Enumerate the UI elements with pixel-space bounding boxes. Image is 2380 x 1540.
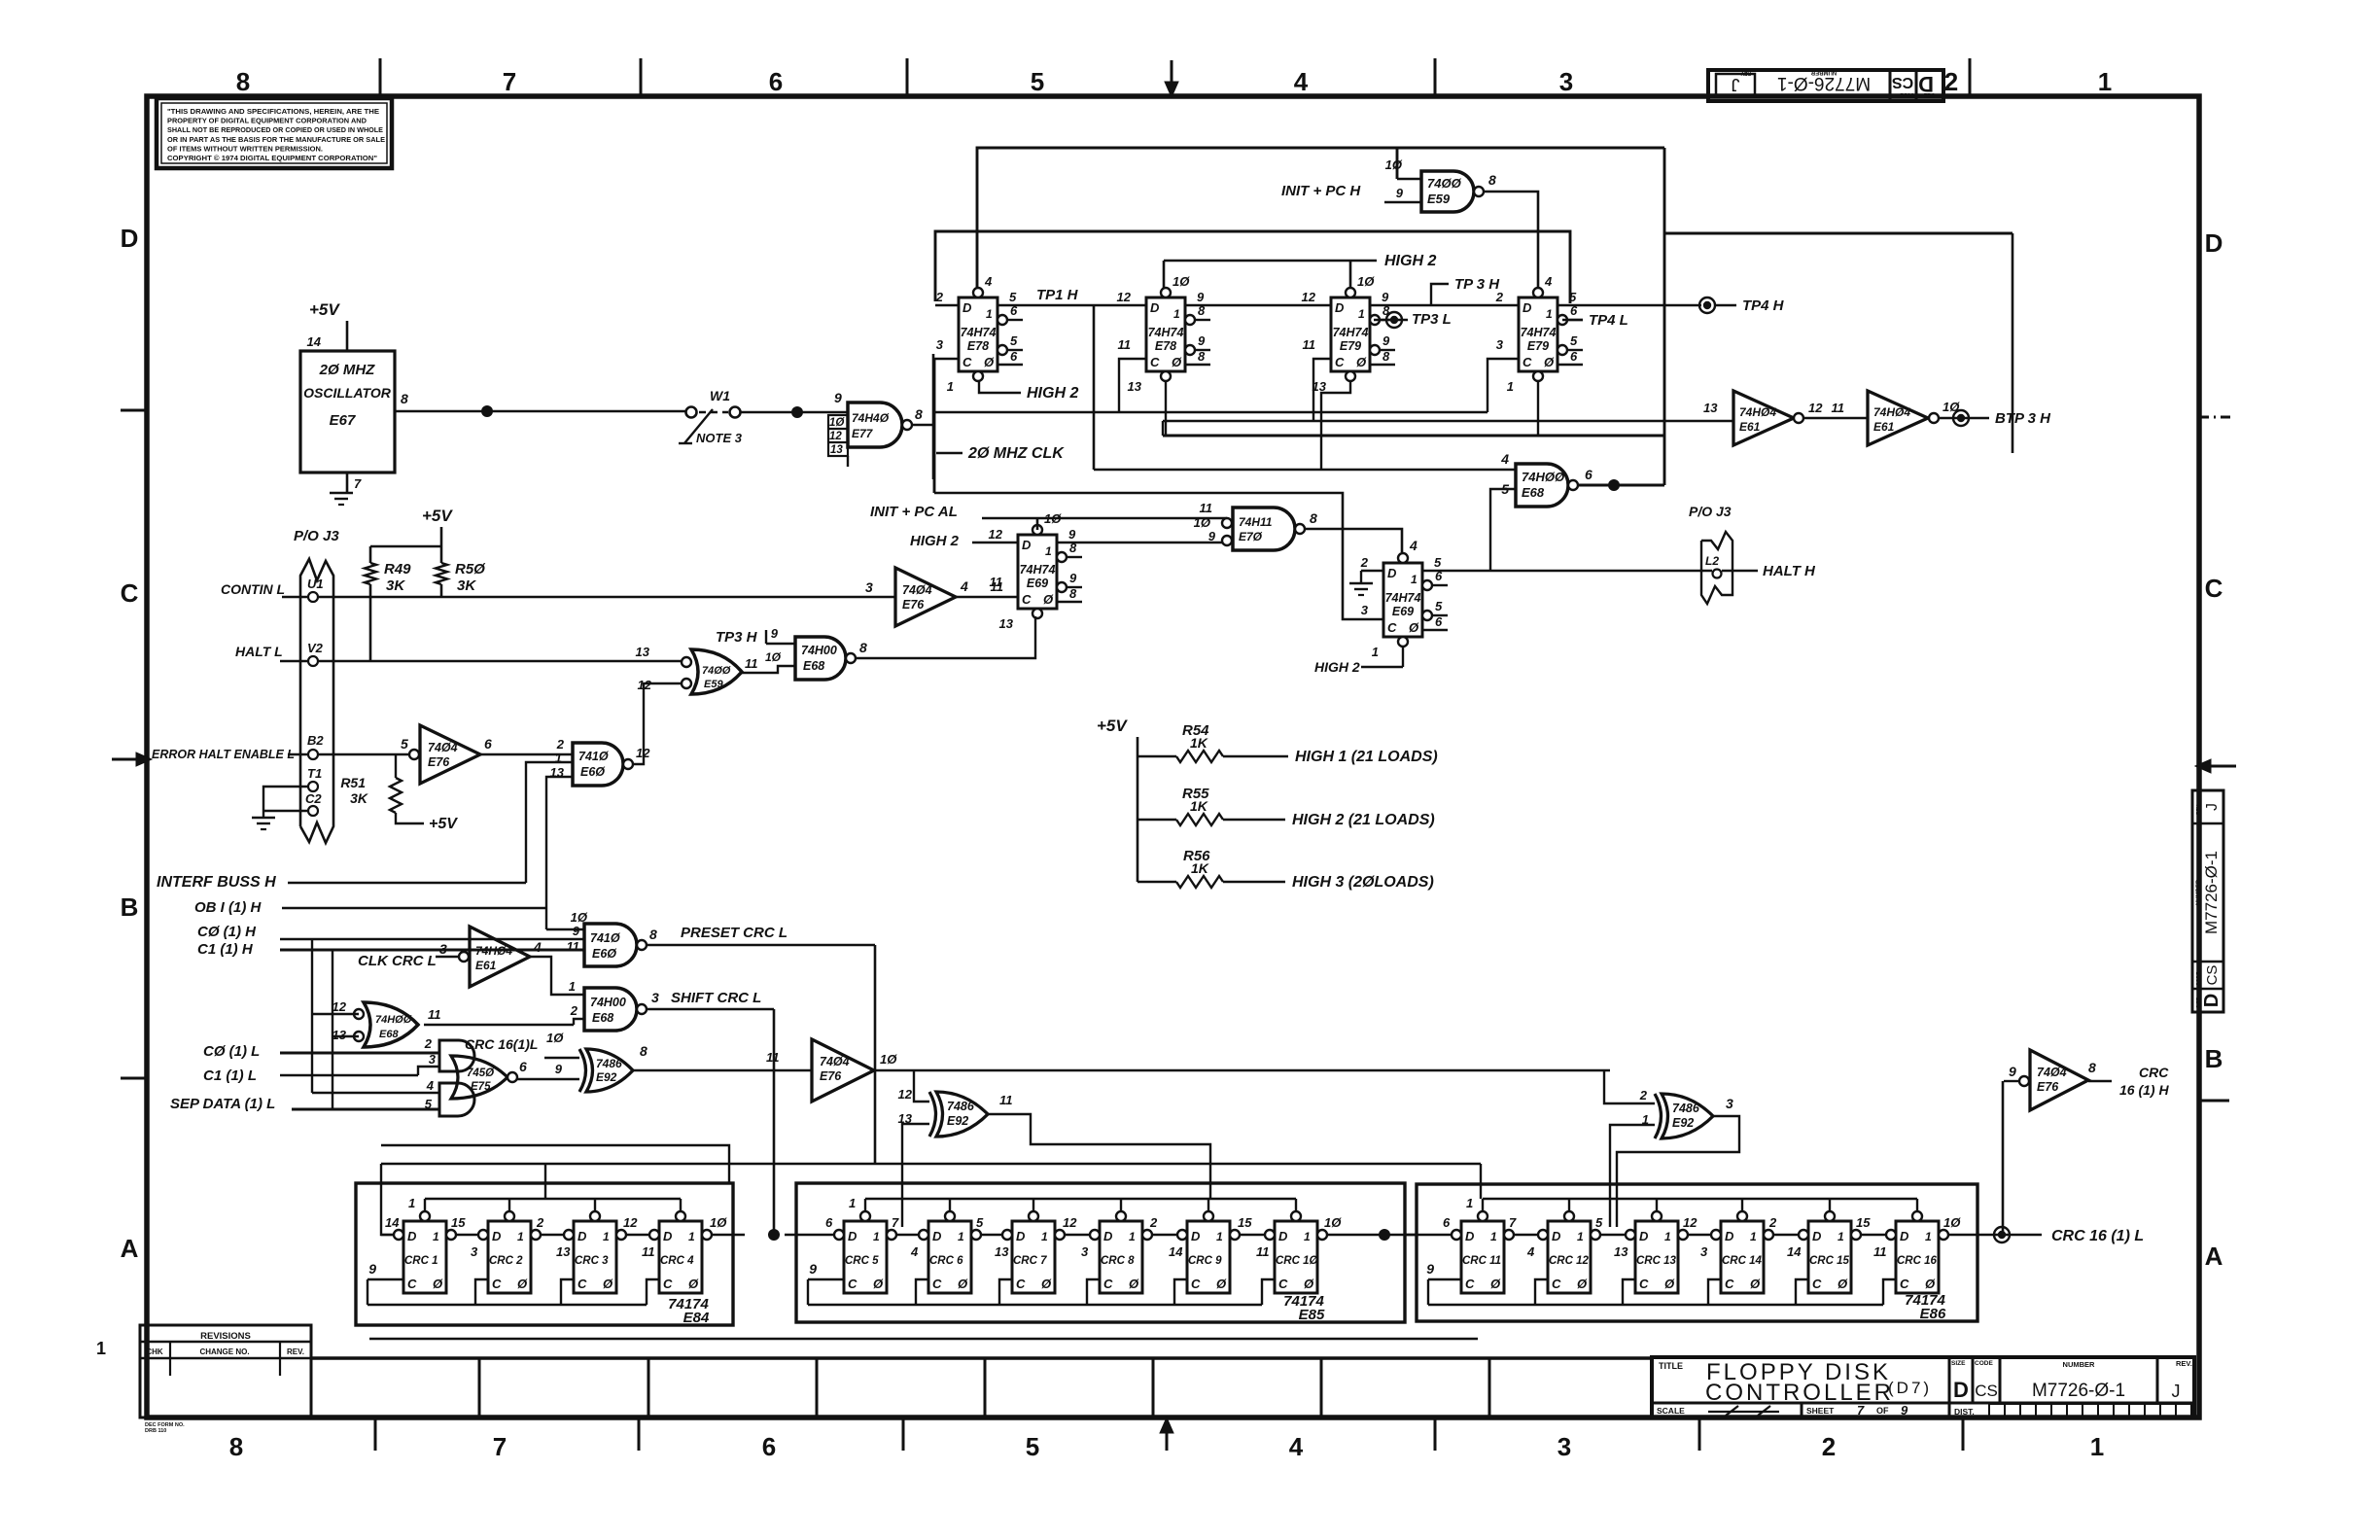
preset rail E85: [865, 1198, 1296, 1200]
high-2 label lower (FF1 clear): [979, 380, 1021, 393]
svg-text:13: 13: [999, 616, 1014, 631]
svg-text:7: 7: [1509, 1215, 1517, 1230]
svg-text:E77: E77: [852, 427, 874, 440]
svg-text:3K: 3K: [386, 577, 405, 594]
svg-text:CØ (1) L: CØ (1) L: [203, 1043, 260, 1060]
svg-text:1Ø: 1Ø: [829, 417, 845, 429]
left fold arrow: [112, 758, 142, 761]
svg-text:C: C: [2205, 574, 2223, 603]
svg-text:12: 12: [829, 431, 842, 442]
svg-text:SHALL NOT BE REPRODUCED OR COP: SHALL NOT BE REPRODUCED OR COPIED OR USE…: [167, 125, 383, 134]
FF4 clear wire: [1537, 380, 1539, 436]
svg-text:12: 12: [1063, 1215, 1077, 1230]
svg-text:2Ø MHZ CLK: 2Ø MHZ CLK: [967, 445, 1065, 462]
svg-text:3K: 3K: [350, 790, 368, 806]
svg-text:1: 1: [1216, 1230, 1223, 1243]
svg-text:C: C: [1335, 355, 1345, 369]
svg-text:HIGH 2: HIGH 2: [1027, 385, 1078, 402]
svg-text:6: 6: [769, 67, 783, 96]
svg-text:3: 3: [439, 941, 447, 957]
svg-text:J: J: [2172, 1382, 2181, 1401]
flip-flop CRC 5: [844, 1221, 887, 1293]
svg-text:E76: E76: [820, 1069, 842, 1083]
wire top right y240: [1664, 232, 2012, 235]
svg-text:2Ø MHZ: 2Ø MHZ: [319, 362, 376, 378]
svg-text:13: 13: [556, 1244, 571, 1259]
svg-text:E75: E75: [471, 1081, 491, 1093]
svg-text:T1: T1: [307, 766, 322, 781]
svg-text:6: 6: [1585, 467, 1592, 482]
svg-text:12: 12: [1808, 401, 1823, 415]
svg-text:P/O J3: P/O J3: [294, 528, 339, 544]
svg-text:A: A: [121, 1234, 139, 1263]
svg-text:CRC 11: CRC 11: [1462, 1255, 1501, 1267]
svg-text:E7Ø: E7Ø: [1239, 530, 1263, 543]
svg-text:1: 1: [1664, 1230, 1671, 1243]
svg-text:R49: R49: [384, 561, 411, 577]
clock drop to E69b: [933, 359, 936, 493]
svg-text:3: 3: [1557, 1432, 1571, 1461]
wire SHIFT CRC L: [647, 1008, 774, 1011]
svg-text:1: 1: [569, 979, 576, 994]
FF2 clear wire: [1165, 380, 1167, 436]
svg-text:74HØ4: 74HØ4: [1739, 405, 1776, 419]
svg-text:E59: E59: [704, 679, 723, 690]
svg-text:4: 4: [426, 1078, 435, 1093]
svg-text:SIZE: SIZE: [1951, 1360, 1966, 1367]
svg-text:M7726-Ø-1: M7726-Ø-1: [2202, 851, 2221, 934]
svg-text:E6Ø: E6Ø: [592, 947, 617, 961]
wire E68 pin5 from halt wire: [1490, 489, 1516, 571]
svg-text:13: 13: [636, 645, 650, 659]
svg-text:+5V: +5V: [309, 300, 340, 319]
wire E77 output to clock node: [912, 424, 933, 427]
wire E59 output to FF4 preset: [1484, 192, 1538, 288]
svg-text:1: 1: [433, 1230, 439, 1243]
svg-text:15: 15: [451, 1215, 466, 1230]
copyright notice block: [157, 98, 392, 168]
svg-text:HIGH 2 (21 LOADS): HIGH 2 (21 LOADS): [1292, 812, 1435, 828]
svg-text:1: 1: [517, 1230, 524, 1243]
svg-text:1K: 1K: [1190, 735, 1208, 751]
svg-text:C: C: [1639, 1277, 1649, 1291]
svg-text:9: 9: [1426, 1261, 1434, 1277]
sideways number strip on right border: [2192, 790, 2223, 1012]
top zone ticks: [379, 58, 382, 96]
svg-text:745Ø: 745Ø: [467, 1067, 495, 1079]
svg-text:E67: E67: [330, 412, 356, 429]
svg-text:REV.: REV.: [2176, 1359, 2192, 1368]
wire E76a out to E69a clock: [956, 596, 1018, 599]
svg-text:7: 7: [493, 1432, 507, 1461]
scale box: [1801, 1403, 1803, 1417]
svg-text:11: 11: [990, 575, 1003, 589]
svg-text:11: 11: [745, 656, 758, 671]
svg-text:CRC: CRC: [2139, 1065, 2169, 1080]
svg-text:Ø: Ø: [1925, 1277, 1936, 1291]
svg-text:OF ITEMS WITHOUT WRITTEN PERMI: OF ITEMS WITHOUT WRITTEN PERMISSION.: [167, 144, 323, 153]
upper wire above registers: [381, 1145, 729, 1183]
svg-text:CS: CS: [1892, 74, 1914, 90]
lower register tie line: [369, 1338, 1478, 1340]
svg-text:Ø: Ø: [984, 355, 995, 369]
svg-text:74H00: 74H00: [590, 996, 626, 1009]
bottom zone ticks: [374, 1417, 377, 1451]
svg-text:74H74: 74H74: [1333, 326, 1369, 339]
flip-flop E78a 74H74: [959, 297, 997, 371]
svg-text:6: 6: [1010, 349, 1018, 364]
svg-text:74ØØ: 74ØØ: [702, 665, 731, 677]
svg-text:HIGH 2: HIGH 2: [1314, 659, 1360, 675]
svg-text:7: 7: [1857, 1403, 1865, 1417]
svg-text:1: 1: [688, 1230, 695, 1243]
svg-text:C: C: [492, 1277, 502, 1291]
top center fold arrow: [1171, 60, 1173, 87]
svg-text:1Ø: 1Ø: [546, 1031, 564, 1045]
svg-text:9: 9: [1198, 333, 1206, 348]
preset rail line above registers: [381, 1163, 1481, 1166]
svg-text:3: 3: [651, 990, 659, 1005]
svg-text:B: B: [2205, 1044, 2223, 1073]
flip-flop E79a 74H74: [1331, 297, 1370, 371]
oscillator ground pin 7: [346, 472, 349, 493]
wire E68 output right: [1578, 484, 1664, 487]
svg-text:5: 5: [1570, 333, 1578, 348]
flip-flop E78b 74H74: [1146, 297, 1185, 371]
clock vertical node x960: [932, 354, 935, 479]
reversed title strip (upside-down): [1708, 70, 1943, 101]
svg-text:CODE: CODE: [1900, 91, 1914, 97]
svg-text:REV: REV: [2196, 804, 2202, 815]
svg-text:5: 5: [976, 1215, 984, 1230]
svg-text:74HØØ: 74HØØ: [1522, 470, 1565, 484]
svg-text:74HØØ: 74HØØ: [375, 1014, 412, 1026]
svg-text:13: 13: [332, 1028, 347, 1042]
svg-text:9: 9: [1382, 290, 1389, 304]
svg-text:741Ø: 741Ø: [590, 931, 621, 945]
svg-text:Ø: Ø: [1041, 1277, 1052, 1291]
svg-text:E76: E76: [428, 755, 450, 769]
svg-text:15: 15: [1238, 1215, 1252, 1230]
svg-text:CRC 1: CRC 1: [404, 1255, 438, 1267]
svg-text:NUMBER: NUMBER: [2196, 879, 2202, 905]
svg-text:CHK: CHK: [146, 1347, 163, 1356]
svg-text:2: 2: [1822, 1432, 1836, 1461]
svg-text:E92: E92: [947, 1114, 968, 1128]
shift crc vertical: [773, 1009, 776, 1232]
svg-text:CODE: CODE: [2196, 971, 2202, 986]
svg-text:R51: R51: [340, 775, 366, 790]
svg-text:Ø: Ø: [1577, 1277, 1588, 1291]
wire E76b out to E60: [480, 753, 573, 756]
flip-flop CRC 1&#216;: [1275, 1221, 1317, 1293]
and gate E70 74H11: [1057, 542, 1227, 544]
svg-text:C: C: [1022, 592, 1032, 607]
svg-text:11: 11: [428, 1007, 441, 1022]
svg-text:DIST.: DIST.: [1954, 1407, 1975, 1417]
svg-text:L2: L2: [1705, 554, 1719, 568]
svg-text:E69: E69: [1027, 577, 1048, 590]
svg-text:2: 2: [1149, 1215, 1158, 1230]
svg-text:7486: 7486: [947, 1100, 975, 1113]
svg-text:E78: E78: [967, 339, 989, 353]
svg-text:D: D: [1191, 1229, 1201, 1243]
svg-text:8: 8: [1069, 586, 1077, 601]
wire PRESET CRC L: [647, 944, 875, 947]
svg-text:D: D: [932, 1229, 942, 1243]
svg-text:11: 11: [1303, 337, 1316, 352]
svg-text:B: B: [121, 892, 139, 922]
svg-text:1Ø: 1Ø: [710, 1215, 727, 1230]
register box E86 74174: [1417, 1184, 1977, 1321]
svg-text:4: 4: [533, 939, 542, 955]
svg-text:D: D: [1016, 1229, 1026, 1243]
wire E60 out to E59b pin 12: [633, 683, 681, 764]
svg-text:12: 12: [989, 527, 1003, 542]
svg-text:CRC 16 (1) L: CRC 16 (1) L: [2051, 1228, 2144, 1244]
svg-text:OSCILLATOR: OSCILLATOR: [303, 385, 392, 401]
svg-text:1: 1: [1925, 1230, 1932, 1243]
svg-text:1: 1: [2090, 1432, 2104, 1461]
svg-text:C: C: [1552, 1277, 1561, 1291]
svg-text:TP3 H: TP3 H: [716, 629, 758, 646]
FF3 clear wire: [1321, 380, 1350, 470]
svg-text:C: C: [1150, 355, 1160, 369]
svg-text:D: D: [1953, 1378, 1969, 1402]
FF1 clock stub: [934, 358, 959, 360]
svg-text:8: 8: [1198, 349, 1206, 364]
svg-text:6: 6: [1435, 614, 1443, 629]
svg-text:D: D: [1522, 300, 1532, 315]
right zone ticks: [2199, 416, 2232, 419]
svg-text:4: 4: [984, 274, 993, 289]
svg-text:PROPERTY OF DIGITAL EQUIPMENT: PROPERTY OF DIGITAL EQUIPMENT CORPORATIO…: [167, 117, 367, 125]
svg-text:Ø: Ø: [1837, 1277, 1848, 1291]
svg-text:C: C: [1016, 1277, 1026, 1291]
wire C0H branch down: [311, 939, 313, 1093]
svg-text:TP4 L: TP4 L: [1589, 312, 1628, 329]
svg-text:11: 11: [567, 939, 580, 954]
svg-text:C: C: [1191, 1277, 1201, 1291]
svg-text:D: D: [2201, 994, 2222, 1007]
flip-flop E69b 74H74: [1383, 563, 1422, 637]
FF3 clock stub: [1313, 359, 1331, 421]
wire y433 to inverter E61a: [1163, 420, 1733, 423]
connector T1 C2 ground: [282, 786, 308, 787]
svg-text:11: 11: [642, 1244, 655, 1259]
nand gate E68c 74H00 shift: [584, 988, 637, 1031]
svg-text:8: 8: [1310, 510, 1317, 526]
svg-text:R5Ø: R5Ø: [455, 561, 486, 577]
svg-text:Ø: Ø: [1409, 620, 1419, 635]
flip-flop E69a 74H74: [1018, 535, 1057, 609]
flip-flop CRC 6: [928, 1221, 971, 1293]
E69b clear HIGH 2: [1402, 647, 1404, 667]
svg-text:Ø: Ø: [517, 1277, 528, 1291]
svg-text:6: 6: [1570, 349, 1578, 364]
svg-text:1: 1: [1577, 1230, 1584, 1243]
svg-text:74Ø4: 74Ø4: [428, 741, 458, 754]
wire CONTIN L to E76 input: [318, 596, 895, 599]
svg-text:5: 5: [1026, 1432, 1039, 1461]
svg-text:1: 1: [1372, 645, 1379, 659]
wire FF3 Q to FF4 D with TP3 H tap: [1370, 304, 1519, 307]
svg-text:NUMBER: NUMBER: [1810, 69, 1837, 75]
junction on oscillator output: [481, 405, 493, 417]
register box E84 74174: [356, 1183, 733, 1325]
svg-text:P/O J3: P/O J3: [1689, 504, 1732, 519]
register box E85 74174: [796, 1183, 1405, 1322]
svg-text:3: 3: [1700, 1244, 1708, 1259]
svg-text:1: 1: [1358, 307, 1365, 321]
svg-text:D: D: [1150, 300, 1160, 315]
svg-text:14: 14: [1169, 1244, 1183, 1259]
svg-text:9: 9: [1901, 1403, 1908, 1417]
svg-text:D: D: [962, 300, 972, 315]
svg-text:U1: U1: [307, 577, 324, 591]
svg-text:11: 11: [1118, 337, 1132, 352]
svg-text:13: 13: [1703, 401, 1718, 415]
svg-text:11: 11: [1873, 1244, 1887, 1259]
jumper W1: [686, 407, 697, 418]
preset rail E86: [1483, 1198, 1917, 1200]
svg-text:HIGH 2: HIGH 2: [910, 533, 960, 549]
svg-text:+5V: +5V: [422, 507, 453, 525]
svg-text:Ø: Ø: [1544, 355, 1555, 369]
svg-text:12: 12: [1117, 290, 1132, 304]
svg-text:E69: E69: [1392, 605, 1414, 618]
svg-text:11: 11: [766, 1050, 780, 1065]
svg-text:14: 14: [307, 334, 322, 349]
svg-text:TP 3 H: TP 3 H: [1454, 276, 1500, 293]
svg-text:12: 12: [332, 999, 347, 1014]
wire E92a out to E76c: [633, 1069, 812, 1072]
svg-text:9: 9: [834, 390, 842, 405]
svg-text:3K: 3K: [457, 577, 476, 594]
svg-text:CRC 8: CRC 8: [1101, 1255, 1135, 1267]
svg-text:Ø: Ø: [1129, 1277, 1139, 1291]
svg-text:1: 1: [1411, 573, 1417, 586]
svg-text:E68: E68: [1522, 485, 1545, 500]
svg-text:REV: REV: [1740, 70, 1751, 76]
svg-text:CRC 16(1)L: CRC 16(1)L: [465, 1036, 538, 1052]
svg-text:14: 14: [385, 1215, 400, 1230]
vertical x2070 to BTP3H: [2012, 233, 2014, 453]
svg-text:CRC 13: CRC 13: [1636, 1255, 1677, 1267]
title block: [1652, 1357, 2194, 1417]
svg-text:6: 6: [825, 1215, 833, 1230]
svg-text:1: 1: [986, 307, 993, 321]
svg-text:3: 3: [429, 1052, 437, 1067]
svg-text:C: C: [1522, 355, 1532, 369]
data wires E85: [896, 1234, 919, 1236]
svg-text:CRC 9: CRC 9: [1188, 1255, 1222, 1267]
svg-text:D: D: [2205, 228, 2223, 258]
data wires E84: [456, 1234, 478, 1236]
svg-text:REV.: REV.: [287, 1347, 304, 1356]
svg-text:C: C: [407, 1277, 417, 1291]
svg-text:1Ø: 1Ø: [880, 1052, 897, 1067]
svg-text:1: 1: [408, 1196, 415, 1210]
svg-text:5: 5: [1031, 67, 1044, 96]
svg-text:1: 1: [1173, 307, 1180, 321]
riser into CRC1 D: [381, 1164, 393, 1235]
svg-text:2: 2: [1944, 67, 1958, 96]
svg-text:TP4 H: TP4 H: [1742, 297, 1785, 314]
svg-text:E86: E86: [1920, 1306, 1946, 1322]
inverter E61c 74H04: [459, 952, 469, 962]
wire W1 to E77: [740, 411, 848, 414]
svg-text:9: 9: [1069, 571, 1077, 585]
svg-text:1Ø: 1Ø: [1385, 157, 1403, 172]
resistor R51 3K: [395, 754, 397, 778]
svg-text:9: 9: [1197, 290, 1205, 304]
svg-text:CODE: CODE: [1975, 1360, 1993, 1367]
svg-text:CONTIN L: CONTIN L: [221, 581, 285, 597]
svg-text:1K: 1K: [1190, 798, 1208, 814]
svg-text:SIZE: SIZE: [1923, 91, 1935, 97]
svg-text:C: C: [1278, 1277, 1288, 1291]
svg-text:3: 3: [936, 337, 944, 352]
wire FF2 Q to FF3 D: [1185, 304, 1331, 307]
wire E76d input from CRC16L: [2002, 1081, 2005, 1232]
wire E61c out to E68c: [530, 957, 584, 995]
wire y483 to E68 pin4: [1094, 469, 1516, 472]
svg-text:C: C: [932, 1277, 942, 1291]
svg-text:"THIS DRAWING AND SPECIFICATIO: "THIS DRAWING AND SPECIFICATIONS, HEREIN…: [167, 107, 379, 116]
svg-text:74H74: 74H74: [1148, 326, 1184, 339]
flip-flop CRC 12: [1548, 1221, 1591, 1293]
svg-text:HALT H: HALT H: [1763, 563, 1816, 579]
wire CRC16 output: [1989, 1234, 2042, 1237]
svg-text:CRC 2: CRC 2: [489, 1255, 523, 1267]
svg-text:3: 3: [1361, 603, 1369, 617]
svg-text:E79: E79: [1340, 339, 1361, 353]
wire oscillator output to W1: [395, 410, 686, 413]
inverter E76c 7404: [812, 1039, 874, 1102]
svg-text:C: C: [1900, 1277, 1909, 1291]
svg-text:1: 1: [1750, 1230, 1757, 1243]
svg-text:12: 12: [1683, 1215, 1697, 1230]
svg-text:E61: E61: [1873, 420, 1895, 434]
flip-flop CRC 9: [1187, 1221, 1230, 1293]
svg-text:1: 1: [1129, 1230, 1136, 1243]
resistor R49 3K: [365, 563, 376, 584]
svg-text:D: D: [663, 1229, 673, 1243]
svg-text:8: 8: [236, 67, 250, 96]
svg-text:C: C: [121, 578, 139, 608]
svg-text:SEP DATA (1) L: SEP DATA (1) L: [170, 1096, 275, 1112]
svg-text:13: 13: [830, 444, 843, 456]
svg-text:D: D: [1387, 566, 1397, 580]
svg-text:8: 8: [915, 406, 923, 422]
svg-text:4: 4: [960, 578, 968, 594]
svg-text:5: 5: [1435, 599, 1443, 613]
svg-text:M7726-Ø-1: M7726-Ø-1: [2032, 1381, 2125, 1401]
svg-text:C2: C2: [305, 791, 322, 806]
svg-text:12: 12: [623, 1215, 638, 1230]
svg-text:74Ø4: 74Ø4: [2037, 1066, 2067, 1079]
svg-text:12: 12: [1302, 290, 1316, 304]
revisions table: [140, 1325, 311, 1417]
svg-text:E59: E59: [1427, 192, 1451, 206]
svg-text:6: 6: [1443, 1215, 1451, 1230]
svg-text:74H74: 74H74: [1385, 591, 1421, 605]
svg-text:2: 2: [1768, 1215, 1777, 1230]
svg-text:741Ø: 741Ø: [578, 750, 610, 763]
wire E59b to E68b: [742, 666, 795, 673]
svg-text:CRC 6: CRC 6: [929, 1255, 963, 1267]
